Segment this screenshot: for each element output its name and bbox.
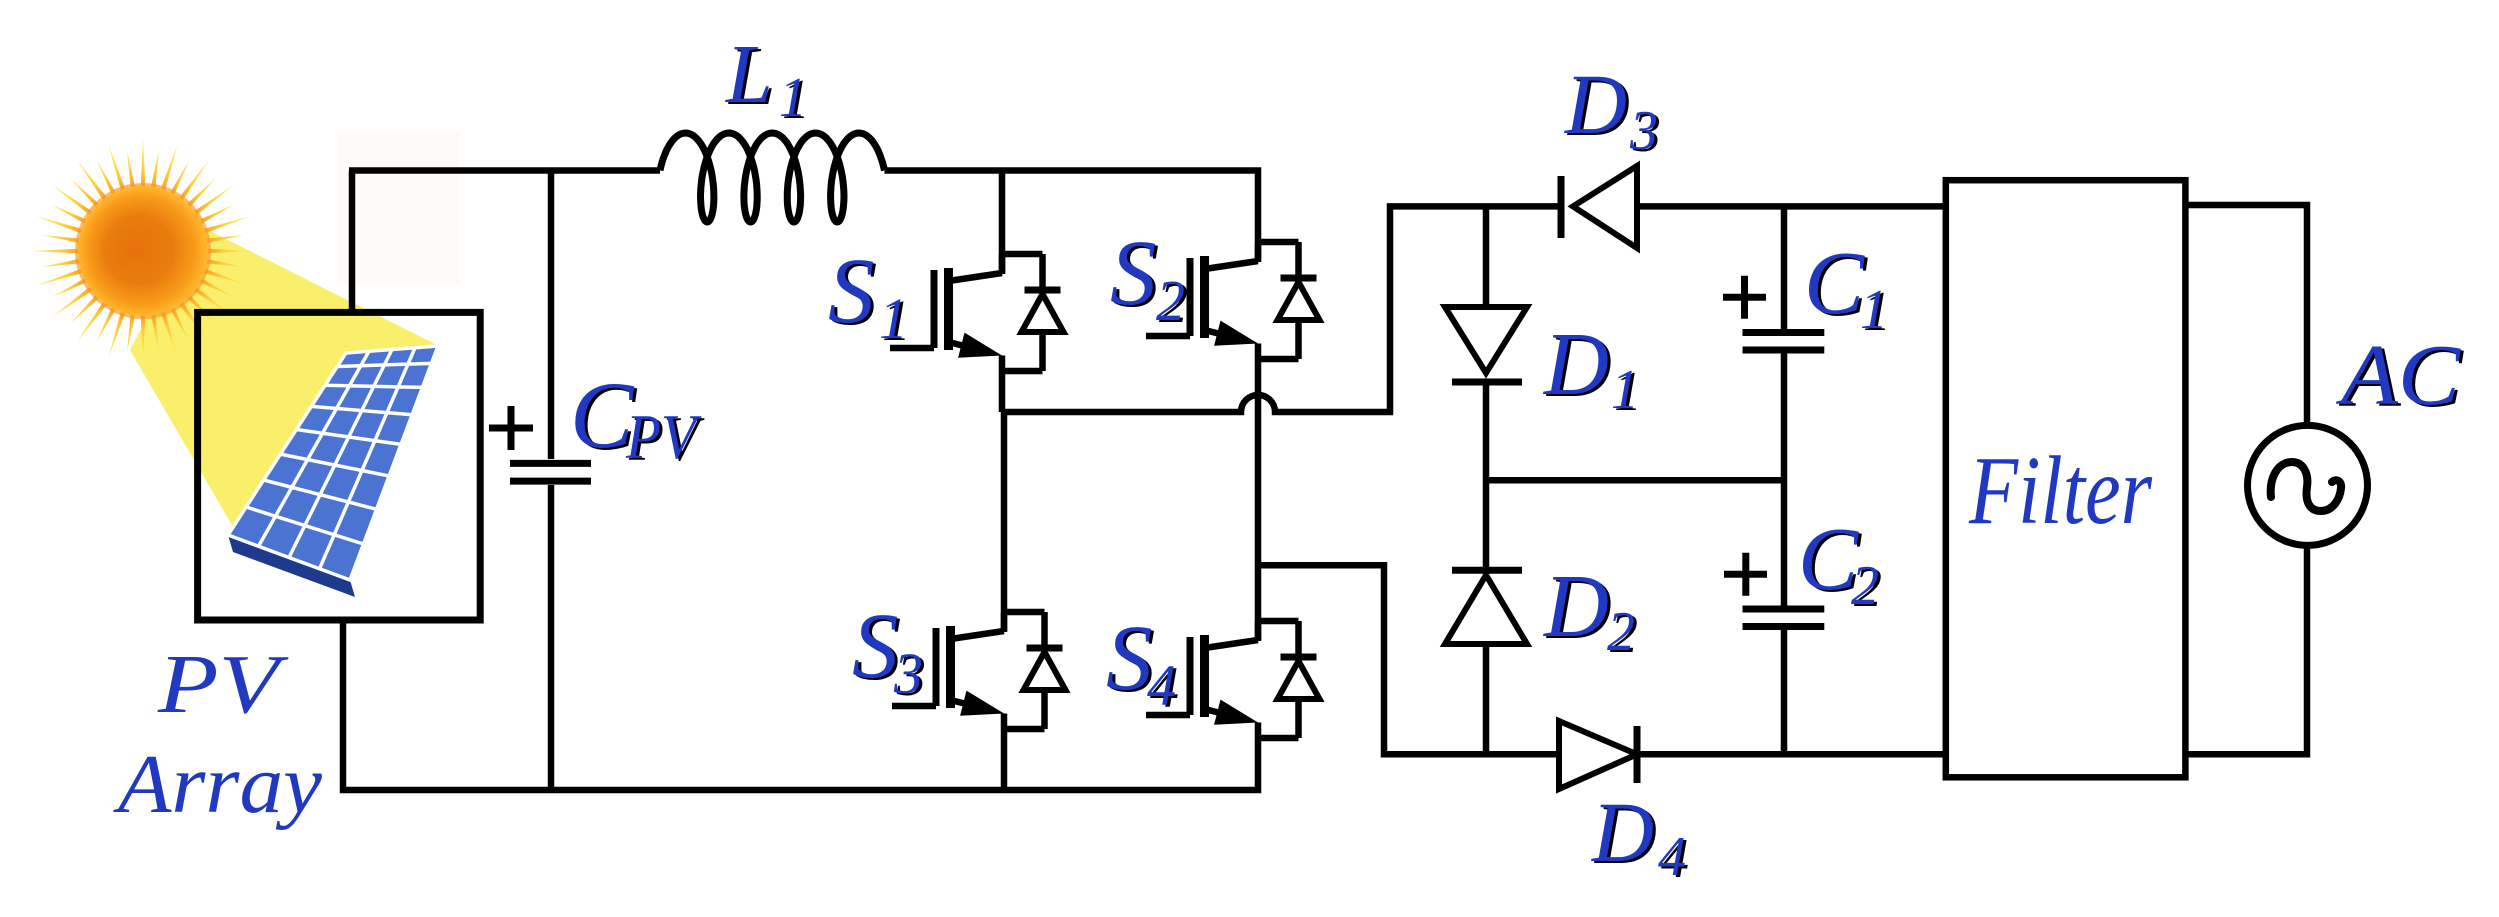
svg-text:Filter: Filter [1968, 437, 2153, 544]
svg-text:C: C [1798, 510, 1859, 609]
svg-text:3: 3 [1629, 100, 1658, 162]
wire: filter to AC top [2185, 205, 2307, 426]
plus sign CPV [489, 406, 533, 450]
svg-text:PV: PV [157, 638, 289, 731]
svg-text:L: L [725, 28, 773, 121]
wire: S4 collector branch to diode bridge [1258, 565, 1559, 754]
plus sign C2 [1724, 553, 1767, 596]
svg-text:S: S [1106, 607, 1153, 710]
svg-text:4: 4 [1147, 653, 1176, 718]
svg-text:AC: AC [2336, 326, 2461, 423]
AC source circle [2248, 425, 2368, 545]
node: S3 emitter junction [1001, 714, 1008, 791]
wire: PV+ to top rail [349, 171, 356, 313]
svg-text:1: 1 [1860, 279, 1888, 341]
svg-text:D: D [1542, 557, 1609, 656]
wire: AC bottom to filter [2185, 545, 2307, 754]
svg-text:2: 2 [1851, 555, 1879, 617]
capacitor CPV [489, 406, 591, 481]
filter block [1946, 180, 2186, 777]
svg-text:Array: Array [113, 738, 323, 831]
svg-text:3: 3 [893, 641, 923, 706]
inductor L1 [660, 133, 885, 222]
PV panel (solar array icon) [228, 535, 355, 597]
diode D3 [1561, 166, 1637, 248]
diode D2 [1445, 570, 1527, 644]
svg-text:2: 2 [1607, 601, 1635, 663]
node: S1 collector junction [999, 171, 1006, 274]
wire: PV- bottom rail [343, 620, 1258, 790]
svg-text:D: D [1564, 56, 1627, 152]
capacitor C1 [1723, 276, 1824, 350]
svg-text:1: 1 [779, 67, 807, 129]
svg-text:1: 1 [1611, 359, 1639, 421]
svg-text:1: 1 [879, 286, 908, 351]
wire: C1 bottom to C2 top [1781, 354, 1788, 606]
plus sign C1 [1723, 276, 1766, 319]
wire: D1 top [1483, 206, 1490, 304]
wire: C1 top [1781, 206, 1788, 329]
svg-text:S: S [828, 240, 875, 343]
wire: mid rail with hop over S2-S4 link [1002, 206, 1561, 412]
wire: D2 bottom [1483, 647, 1490, 754]
svg-text:4: 4 [1658, 826, 1686, 888]
transistor S1 (IGBT with anti-parallel diode) [890, 254, 1064, 371]
PV array box [198, 312, 481, 620]
wire: D3 cathode line to filter [1637, 203, 1946, 210]
wire: CPV branch [548, 171, 555, 460]
svg-text:PV: PV [625, 402, 702, 472]
wire: C2 bottom [1781, 630, 1788, 754]
svg-text:C: C [1804, 234, 1865, 333]
svg-text:2: 2 [1156, 268, 1185, 333]
wire: S3 collector [1001, 412, 1008, 631]
capacitor C2 [1724, 553, 1824, 627]
transistor S3 (IGBT with anti-parallel diode) [892, 612, 1066, 729]
svg-text:S: S [852, 595, 899, 698]
wire: S2 emitter to S4 collector [1255, 344, 1262, 641]
wire: top rail [349, 167, 660, 174]
wire: clamp mid junction to capacitor midpoint [1486, 477, 1784, 484]
transistor S2 (IGBT with anti-parallel diode) [1146, 242, 1320, 359]
AC sine wave [2271, 462, 2341, 511]
wire: S1 emitter to mid rail [999, 356, 1006, 413]
diode D4 [1559, 721, 1637, 789]
wire: D1-D2 middle [1483, 382, 1490, 570]
diode D1 [1445, 307, 1527, 382]
svg-text:D: D [1542, 315, 1609, 414]
sun light beam [130, 224, 441, 532]
svg-text:S: S [1110, 222, 1157, 325]
transistor S4 (IGBT with anti-parallel diode) [1146, 621, 1320, 738]
wire: D4 cathode to filter [1637, 751, 1946, 758]
svg-text:D: D [1591, 784, 1654, 880]
